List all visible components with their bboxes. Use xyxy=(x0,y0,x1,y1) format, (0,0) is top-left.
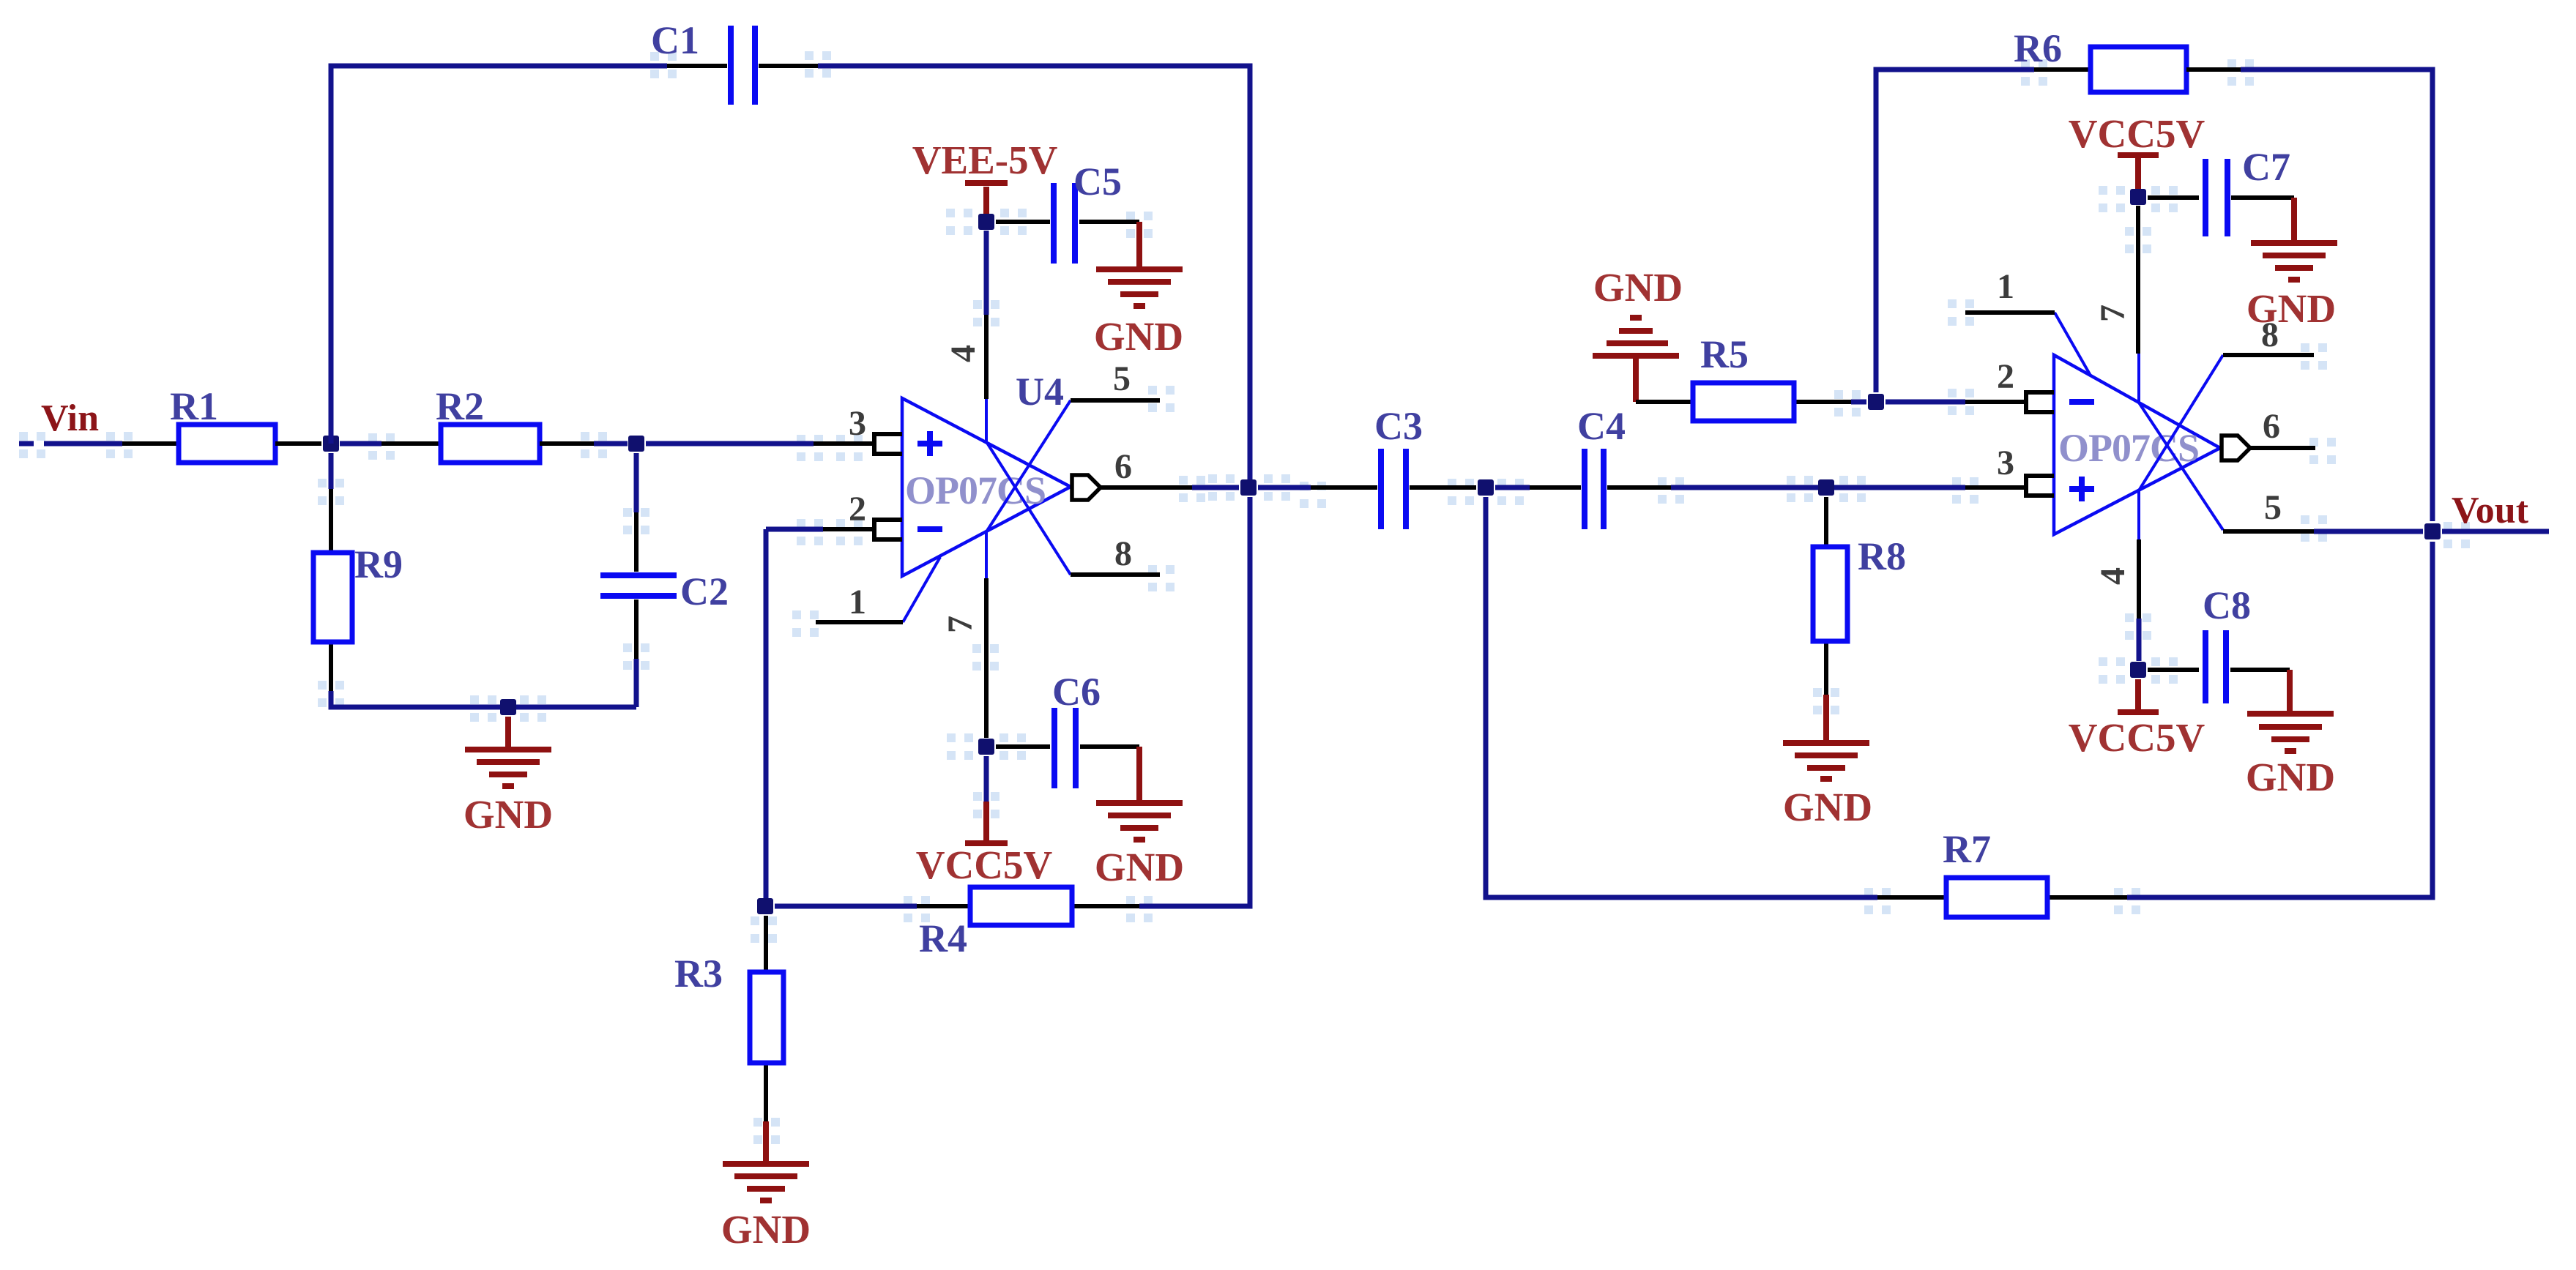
capacitor C1 with feedback loop wires xyxy=(331,18,1250,483)
ground symbol below R9 row xyxy=(464,717,553,837)
wire Vin input segment xyxy=(19,441,179,447)
svg-text:VCC5V: VCC5V xyxy=(2069,111,2205,156)
node output junction first stage xyxy=(1240,479,1257,496)
node mid C3 C4 junction xyxy=(1478,479,1494,496)
wire R7 to Vout vertical xyxy=(2127,542,2432,897)
svg-text:VCC5V: VCC5V xyxy=(2069,715,2205,760)
wire bottom row R9 to C2 xyxy=(331,691,636,707)
resistor R2 xyxy=(441,425,540,463)
svg-text:GND: GND xyxy=(1095,845,1184,889)
op-amp 2 pin 1 stub and wire xyxy=(1965,267,2091,376)
resistor R1 xyxy=(179,425,275,463)
svg-text:R8: R8 xyxy=(1858,534,1906,578)
pin 5 stub and wire xyxy=(987,359,1160,531)
power VCC5V symbol bottom right xyxy=(2069,679,2205,760)
svg-text:7: 7 xyxy=(941,616,980,633)
op-amp 2 triangle xyxy=(2054,355,2220,534)
svg-text:R2: R2 xyxy=(436,384,484,428)
node Vout junction xyxy=(2424,523,2441,539)
svg-text:R1: R1 xyxy=(170,384,218,428)
svg-text:VCC5V: VCC5V xyxy=(916,843,1053,887)
svg-text:7: 7 xyxy=(2093,305,2132,322)
ground symbol for C7 xyxy=(2246,198,2337,331)
capacitor C6 xyxy=(996,670,1139,788)
svg-text:OP07CS: OP07CS xyxy=(905,468,1046,512)
svg-text:5: 5 xyxy=(1113,359,1131,398)
node GND row junction xyxy=(500,699,516,715)
svg-text:C8: C8 xyxy=(2203,583,2251,627)
op-amp 2 pin 8 stub and wire xyxy=(2139,315,2314,490)
capacitor C5 xyxy=(996,160,1139,264)
svg-text:1: 1 xyxy=(849,583,866,621)
svg-text:R6: R6 xyxy=(2014,26,2062,70)
resistor R6 xyxy=(2014,26,2186,92)
ground symbol for R8 xyxy=(1783,695,1872,829)
wire node R6 to op-amp 2 pin 2 xyxy=(1886,400,2026,405)
wire R7 feedback loop xyxy=(1486,497,1877,897)
svg-text:C2: C2 xyxy=(680,569,729,613)
op-amp 2 pin 3 glyph xyxy=(1997,444,2054,496)
svg-text:4: 4 xyxy=(2093,567,2132,585)
resistor R4 xyxy=(917,887,1139,960)
svg-text:R9: R9 xyxy=(354,542,403,586)
svg-text:2: 2 xyxy=(849,490,866,528)
ground symbol inverted near R5 xyxy=(1593,265,1683,402)
svg-text:VEE-5V: VEE-5V xyxy=(912,138,1058,182)
svg-text:C1: C1 xyxy=(651,18,699,62)
svg-text:3: 3 xyxy=(849,404,866,443)
op-amp 2 pin 5 stub and wire to Vout xyxy=(2139,403,2423,531)
wire R4 to node R3 xyxy=(775,904,917,909)
resistor R3 xyxy=(674,916,783,1121)
capacitor C8 xyxy=(2148,583,2290,703)
svg-text:GND: GND xyxy=(721,1207,811,1252)
svg-text:GND: GND xyxy=(464,792,553,837)
node VCC top junction xyxy=(2130,189,2146,205)
svg-text:6: 6 xyxy=(2263,407,2280,446)
svg-text:R4: R4 xyxy=(919,916,967,960)
wire R1 to node A xyxy=(275,441,321,446)
resistor R7 xyxy=(1877,827,2127,917)
svg-text:3: 3 xyxy=(1997,444,2014,482)
ground symbol for R3 xyxy=(721,1121,811,1252)
node B junction xyxy=(628,436,644,452)
wire R6 feedback loop left vertical and top xyxy=(1876,70,2091,392)
pin 4 wire xyxy=(944,231,986,443)
svg-text:GND: GND xyxy=(2246,286,2336,331)
wire R5 to node R6 xyxy=(1851,400,1866,405)
svg-text:GND: GND xyxy=(1593,265,1683,310)
node R8 junction xyxy=(1818,479,1834,496)
pin 3 glyph xyxy=(874,434,902,454)
op-amp 2 pin 7 wire xyxy=(2093,206,2139,403)
svg-text:C3: C3 xyxy=(1374,404,1423,448)
power VCC5V symbol below pin 7 xyxy=(916,756,1053,887)
capacitor C4 xyxy=(1495,404,1671,529)
node R3 junction xyxy=(757,898,773,914)
wire R2 to node B xyxy=(540,441,628,446)
svg-text:6: 6 xyxy=(1114,447,1132,486)
svg-text:C5: C5 xyxy=(1073,160,1122,203)
svg-text:R3: R3 xyxy=(674,952,723,996)
ground symbol for C5 xyxy=(1094,222,1183,359)
svg-text:C4: C4 xyxy=(1577,404,1626,448)
node R6 junction xyxy=(1868,394,1884,410)
svg-text:Vout: Vout xyxy=(2452,490,2529,531)
op-amp 2 pin 2 glyph xyxy=(1997,357,2054,412)
svg-text:5: 5 xyxy=(2264,488,2282,527)
svg-text:8: 8 xyxy=(1114,534,1132,573)
node A junction xyxy=(323,436,339,452)
svg-text:U4: U4 xyxy=(1016,370,1064,414)
svg-text:Vin: Vin xyxy=(41,397,99,439)
capacitor C7 xyxy=(2148,145,2294,236)
op-amp 2 pin 4 wire xyxy=(2093,490,2139,661)
capacitor C3 xyxy=(1258,404,1476,529)
wire C4 to op-amp 2 pin 3 xyxy=(1671,485,2026,490)
svg-text:R5: R5 xyxy=(1700,332,1749,376)
wire R6 to Vout right vertical xyxy=(2186,70,2432,521)
resistor R8 xyxy=(1813,497,1906,695)
svg-text:2: 2 xyxy=(1997,357,2014,396)
pin 8 stub and wire xyxy=(987,443,1160,575)
wire node B to op-amp pin 3 xyxy=(646,441,874,447)
node VEE junction xyxy=(978,214,994,230)
pin 6 output glyph and wire xyxy=(1072,447,1239,500)
svg-text:GND: GND xyxy=(1783,785,1872,829)
pin 7 wire xyxy=(941,531,986,738)
resistor R9 xyxy=(313,453,403,691)
ground symbol for C6 xyxy=(1095,747,1184,889)
wire Vout output xyxy=(2442,529,2549,534)
svg-text:GND: GND xyxy=(2246,755,2335,799)
op-amp 2 pin 6 output glyph and wire xyxy=(2222,407,2315,460)
ground symbol for C8 xyxy=(2246,670,2335,799)
resistor R5 xyxy=(1636,332,1851,421)
node C8 junction xyxy=(2130,662,2146,678)
op-amp U4 triangle xyxy=(902,398,1071,576)
svg-text:R7: R7 xyxy=(1943,827,1991,871)
svg-text:C6: C6 xyxy=(1052,670,1101,714)
svg-text:1: 1 xyxy=(1997,267,2014,306)
pin 1 stub and wire xyxy=(816,557,940,622)
power VEE-5V symbol xyxy=(912,138,1058,214)
wire feedback loop right vertical to R4 row xyxy=(1139,497,1250,906)
svg-text:C7: C7 xyxy=(2242,145,2290,189)
node C6 junction xyxy=(978,739,994,755)
pin 2 glyph and wire xyxy=(766,490,902,906)
power VCC5V symbol top right xyxy=(2069,111,2205,189)
svg-text:GND: GND xyxy=(1094,314,1183,359)
wire node A to R2 xyxy=(340,441,441,447)
capacitor C2 xyxy=(600,453,729,707)
svg-text:4: 4 xyxy=(944,345,983,362)
